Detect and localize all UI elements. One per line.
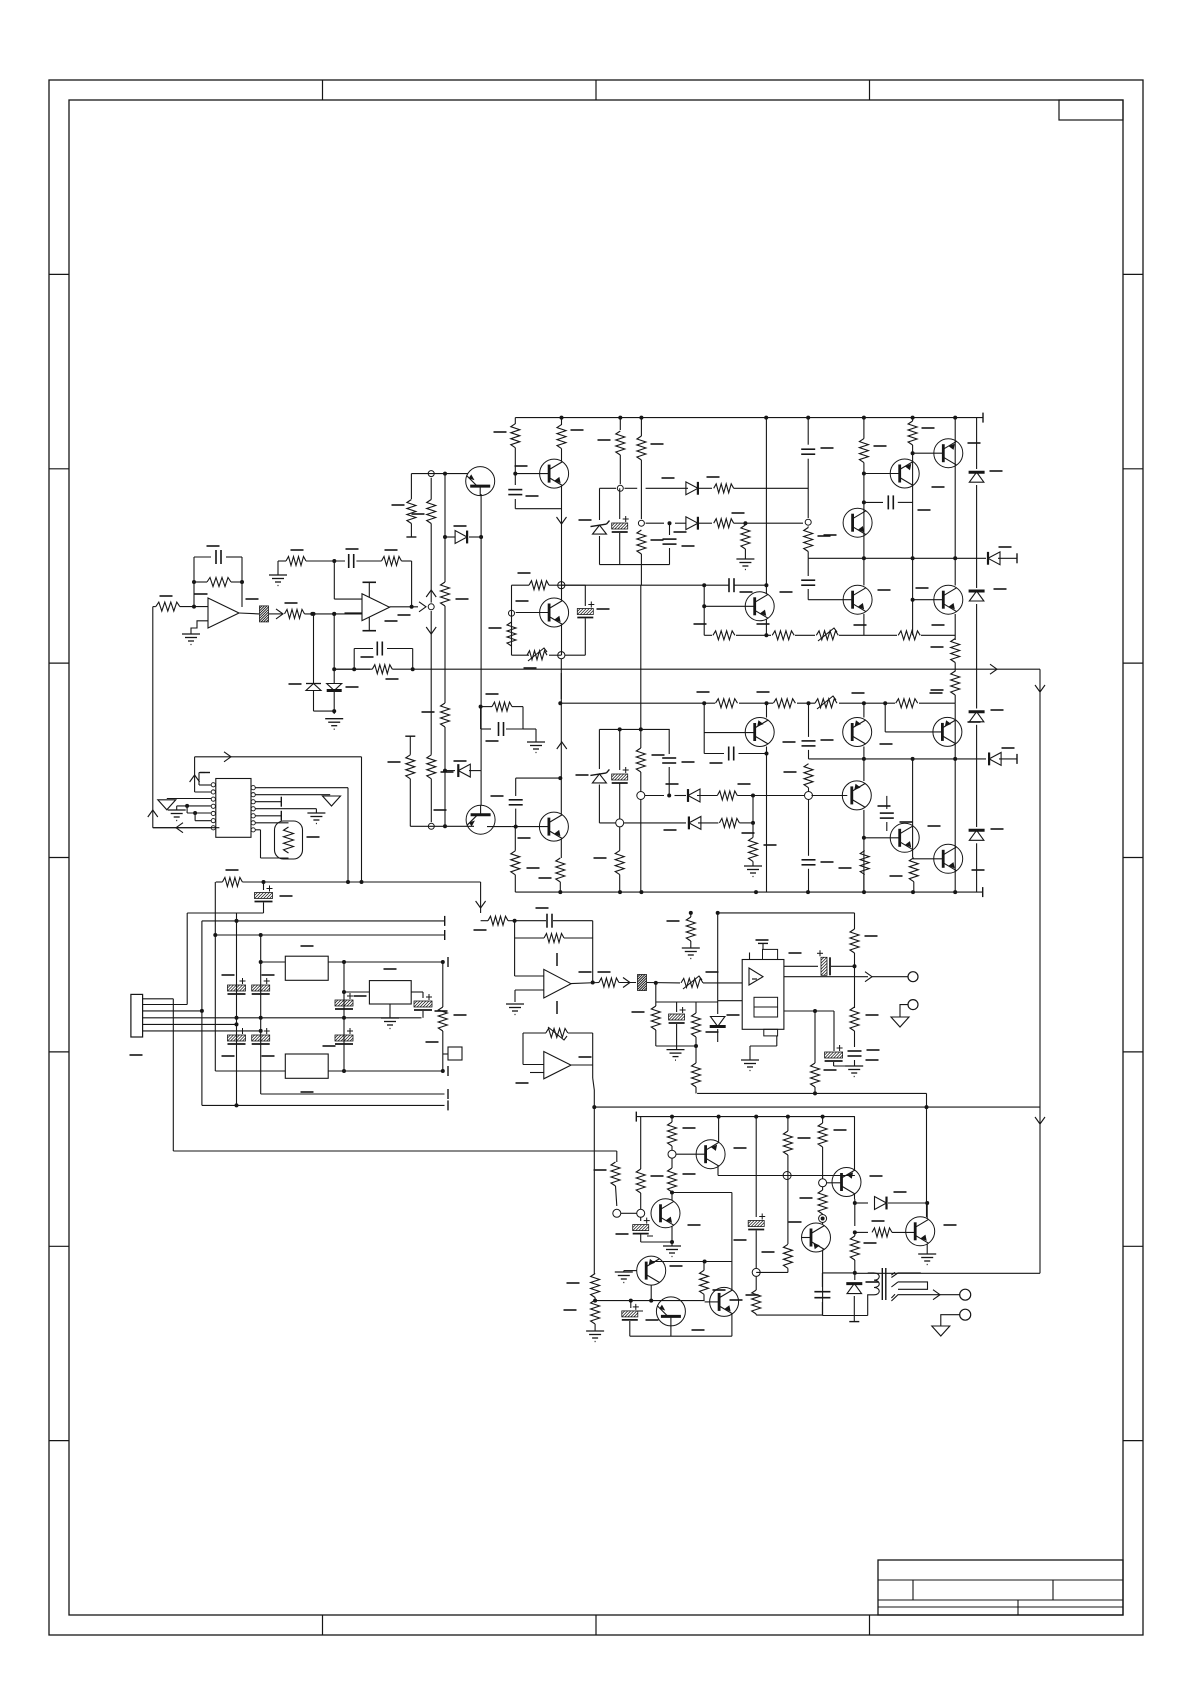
transistor Q8 xyxy=(890,459,919,488)
wire x787 low xyxy=(787,1268,789,1272)
wire J1 p2 xyxy=(143,1004,188,1006)
wire U4 out xyxy=(571,983,599,984)
capacitor C24 xyxy=(668,729,670,754)
ecap C51 xyxy=(630,1301,632,1308)
rect inside U5 xyxy=(754,997,778,1017)
wire x955 low xyxy=(954,695,956,703)
wire x511 vert xyxy=(511,585,513,655)
diode D13 xyxy=(686,517,698,530)
wire Q11 emit xyxy=(560,839,562,858)
relay core xyxy=(881,1268,883,1300)
wire rail y1093 xyxy=(697,1092,926,1094)
capacitor C18 xyxy=(801,579,815,581)
right margin tick 6 xyxy=(1123,1245,1143,1247)
wire x431 node to res xyxy=(430,478,432,500)
op-amp U2 xyxy=(362,594,390,621)
ferrite bead FB1 xyxy=(260,606,269,622)
wire VR3 gnd xyxy=(389,1004,391,1018)
capacitor C53b xyxy=(814,1291,830,1293)
wire D12 right xyxy=(698,487,712,489)
wire y1315 mid xyxy=(756,1314,822,1316)
wire x481 emitter chain xyxy=(480,494,482,537)
wire x620 top xyxy=(619,418,621,430)
wire x822 mid4 xyxy=(822,1223,824,1224)
wire pin R6 xyxy=(255,822,288,824)
wire rail558 term xyxy=(998,557,1017,559)
wire x236 xyxy=(236,913,238,1105)
wire x201 xyxy=(201,921,203,1106)
arrow signal right 1 xyxy=(276,609,283,619)
junction y1116 xyxy=(670,1115,674,1119)
transistor Q16 xyxy=(934,844,963,873)
junction x696 xyxy=(694,1044,698,1048)
transistor Q12 xyxy=(745,718,774,747)
junction bottom rail xyxy=(639,890,643,894)
resistor R37 xyxy=(896,699,918,708)
left margin tick 1 xyxy=(49,273,69,275)
node x822 circle a xyxy=(819,1179,827,1187)
wire x808 mid xyxy=(807,459,809,518)
wire Q14 base xyxy=(884,703,886,732)
node Q17 base circle xyxy=(637,1209,645,1217)
junction top rail xyxy=(639,416,643,420)
wire x913 a xyxy=(912,418,914,421)
wire Q11 bot xyxy=(559,882,561,892)
op-amp U4 xyxy=(544,969,571,998)
zener DZ4 xyxy=(590,773,606,776)
capacitor C22 xyxy=(509,799,523,801)
ground D2 xyxy=(325,718,343,720)
ground U5 xyxy=(741,1059,759,1061)
IC pin left 6 xyxy=(211,819,215,823)
wire x641 lower xyxy=(640,800,642,893)
IC pin right 3 xyxy=(251,800,255,804)
resistor R13 xyxy=(427,500,436,524)
wire Q21 col xyxy=(731,1262,733,1291)
resistor R16 xyxy=(529,581,549,590)
open terminal OT2 xyxy=(908,1000,918,1010)
transistor Q17 xyxy=(651,1199,680,1228)
wire y1175 xyxy=(718,1175,855,1177)
wire sense vertical xyxy=(152,607,154,828)
arrow x480 down xyxy=(476,901,486,908)
ecap C50 xyxy=(640,1218,642,1222)
resistor R25 xyxy=(804,528,813,552)
resistor R4 xyxy=(286,557,306,566)
wire Q4 emit xyxy=(561,625,563,655)
resistor R15 xyxy=(441,703,450,727)
resistor R70 xyxy=(591,1274,600,1298)
wire relay bottom rail xyxy=(822,1315,867,1317)
node y585 circle xyxy=(558,582,565,589)
wire x561 lower xyxy=(560,659,562,699)
wire x704 y585-635 xyxy=(703,585,705,635)
wire bias box top xyxy=(600,487,617,489)
resistor R62 xyxy=(850,1007,859,1031)
wire rail y1116 xyxy=(636,1116,855,1118)
ecap C36 xyxy=(335,1035,353,1041)
wire x913 bot xyxy=(913,882,915,892)
junction top rail xyxy=(764,416,768,420)
junction x672 y1192 xyxy=(670,1191,674,1195)
resistor R42 xyxy=(640,585,642,748)
diode D17 xyxy=(989,752,1001,765)
junction y962 xyxy=(259,960,263,964)
arrow relay out xyxy=(933,1290,940,1300)
wire Q18 base xyxy=(676,1153,705,1155)
terminal bottom rail xyxy=(982,887,984,897)
right margin tick 7 xyxy=(1123,1440,1143,1442)
relay contact 2 xyxy=(891,1295,931,1301)
power flag F1 xyxy=(158,800,176,810)
zener DZ1 xyxy=(599,488,601,520)
wire U5 out xyxy=(784,976,868,978)
wire Q24 emit xyxy=(926,1244,928,1254)
resistor R40 xyxy=(427,755,436,779)
wire Q10 base wire xyxy=(913,452,943,454)
zener DZ3 xyxy=(969,590,985,593)
wire x561 70x xyxy=(560,703,562,795)
wire U6 fb left xyxy=(522,1033,524,1065)
wire fb tap to RC xyxy=(334,668,370,670)
junction x445 y770 xyxy=(443,769,447,773)
resistor R75 xyxy=(668,1168,677,1192)
label U1 out xyxy=(246,598,259,600)
resistor R47 xyxy=(909,858,918,882)
wire net y561 c xyxy=(356,560,381,562)
junction y795 x669 xyxy=(667,794,671,798)
wire y756 down xyxy=(361,757,363,882)
trim resistor R36 xyxy=(815,699,837,708)
wire x431 mid2 xyxy=(430,611,432,755)
wire Q3 bottom stub xyxy=(480,771,482,806)
wire x410 low xyxy=(409,779,411,827)
wire R54 arrow xyxy=(619,982,636,984)
wire lrc right xyxy=(522,707,524,729)
wire pin L6 xyxy=(195,820,211,822)
transistor Q6 xyxy=(843,585,872,614)
resistor R54 xyxy=(599,978,619,987)
transistor Q3 big xyxy=(466,805,495,834)
wire U2 inv xyxy=(345,612,363,614)
wire pin R4 xyxy=(255,808,316,810)
top margin tick 2 xyxy=(595,80,597,100)
node x854 y1232 xyxy=(853,1230,857,1234)
IC box U5 xyxy=(742,960,784,1030)
junction y826 x515 xyxy=(514,825,518,829)
resistor R34 xyxy=(716,699,738,708)
transistor Q13 xyxy=(843,718,872,747)
title block divider b xyxy=(1052,1580,1054,1600)
junction x854 y966 xyxy=(853,964,857,968)
wire y1336 xyxy=(630,1335,732,1337)
relay contact loop xyxy=(898,1282,928,1289)
wire x976 low xyxy=(976,604,978,709)
wire x561 to Q1 xyxy=(561,449,563,461)
wire x445 low xyxy=(444,727,446,826)
ground net561 xyxy=(277,561,279,575)
transistor Q18 xyxy=(696,1140,725,1169)
resistor R23 xyxy=(714,484,734,493)
wire node A down xyxy=(313,614,315,683)
title block divider c xyxy=(1017,1600,1019,1615)
resistor R21 xyxy=(637,436,646,460)
lamp TH1 xyxy=(275,821,303,859)
wire RC box left xyxy=(353,649,355,670)
node Q18 base circle xyxy=(668,1150,676,1158)
transistor Q13b xyxy=(842,781,871,810)
U5 top pin line xyxy=(749,953,751,960)
capacitor C20 xyxy=(728,747,730,761)
wire OT4 hook xyxy=(941,1315,960,1326)
capacitor C27 xyxy=(481,728,491,730)
resistor R58 xyxy=(811,1063,820,1087)
wire x808 low xyxy=(807,526,809,527)
resistor R27 xyxy=(908,421,917,445)
diode D21 xyxy=(855,1202,868,1204)
wire pin L7 xyxy=(153,827,211,829)
wire feedback mid xyxy=(194,581,207,583)
arrow sense left xyxy=(176,823,183,833)
IC box U3 xyxy=(216,779,251,838)
node y826 circle xyxy=(428,823,434,829)
regulator box VR2 xyxy=(285,1054,328,1078)
junction top rail xyxy=(862,416,866,420)
wire y523 to node xyxy=(734,522,803,524)
resistor R74 xyxy=(668,1122,677,1146)
capacitor C21 xyxy=(808,703,810,737)
wire Q8 base wire xyxy=(864,473,899,475)
junction y935 a xyxy=(213,933,217,937)
wire Q23 emit xyxy=(854,1194,856,1200)
resistor R33 xyxy=(951,671,960,695)
resistor R3 xyxy=(285,609,305,618)
wire x672 mid2 xyxy=(671,1158,673,1168)
regulator box VR1 xyxy=(285,956,328,980)
diode D15 xyxy=(688,789,700,802)
junction x864 y502 xyxy=(862,500,866,504)
zener DZ2 xyxy=(969,471,985,474)
node x822 circle b xyxy=(819,1215,827,1223)
transistor Q14 xyxy=(933,717,962,746)
wire node B down xyxy=(333,614,335,684)
ecap C31 xyxy=(228,985,246,991)
arrow x561 down xyxy=(557,517,567,524)
resistor R35 xyxy=(773,699,795,708)
arrow x431 down xyxy=(426,627,436,634)
capacitor C26b xyxy=(808,800,810,856)
label J1 xyxy=(130,1054,143,1056)
wire U6 out xyxy=(571,1064,593,1066)
junction bottom rail xyxy=(618,890,622,894)
regulator box VR3 xyxy=(369,981,411,1004)
wire rail y760 xyxy=(809,758,987,760)
terminal pin L1 xyxy=(200,772,210,774)
wire U6 inv xyxy=(523,1064,544,1066)
wire pin R7 xyxy=(255,829,260,831)
transistor Q23 xyxy=(832,1168,861,1197)
left margin tick 2 xyxy=(49,468,69,470)
resistor R82 xyxy=(850,1236,859,1260)
wire x913 lower xyxy=(912,760,914,858)
resistor R60 xyxy=(692,1063,701,1087)
node B xyxy=(332,612,336,616)
resistor R85 xyxy=(804,764,813,788)
wire x595 mid xyxy=(594,1298,596,1301)
wire J1 p3 xyxy=(143,1010,202,1012)
power flag F2 xyxy=(323,796,341,806)
wire Q21 emit xyxy=(731,1314,733,1336)
resistor R29 xyxy=(772,631,794,640)
resistor R10 xyxy=(511,424,520,448)
resistor R2 xyxy=(207,578,231,587)
wire net y561 d xyxy=(402,560,412,562)
wire y822 right b xyxy=(739,822,753,824)
resistor R17 xyxy=(507,622,516,646)
wire x854 low2 xyxy=(854,1031,856,1047)
resistor R50 xyxy=(222,878,242,887)
arrow x194 up xyxy=(190,775,200,782)
diode D14 xyxy=(988,552,1000,565)
left margin tick 3 xyxy=(49,662,69,664)
wire pin R1 xyxy=(255,787,348,789)
resistor R78 xyxy=(783,1131,792,1155)
wire bottom rail y1071 xyxy=(215,1070,285,1072)
wire sense to IC xyxy=(153,827,220,829)
wire x913 b xyxy=(912,445,914,558)
transistor Q1 xyxy=(540,459,569,488)
wire Q18 col xyxy=(718,1117,720,1143)
wire x691 stub xyxy=(690,913,692,917)
junction rail1018 xyxy=(235,1016,239,1020)
power flag F5 xyxy=(932,1326,950,1336)
ecap C14 xyxy=(619,488,621,519)
wire pin L3 xyxy=(167,798,211,800)
wire row635 xyxy=(704,634,712,636)
transistor Q20 xyxy=(656,1297,685,1326)
IC pin right 7 xyxy=(251,828,255,832)
wire x215 xyxy=(214,882,216,1071)
wire R3 to node xyxy=(305,613,362,615)
diode D12 xyxy=(686,482,698,495)
wire x815 down xyxy=(814,1011,816,1063)
wire Q21 base xyxy=(705,1301,720,1303)
wire x756 top xyxy=(755,1117,757,1217)
wire x515 top xyxy=(514,418,516,424)
junction bottom rail xyxy=(862,890,866,894)
wire x260 xyxy=(260,935,262,1094)
wire rail y1107 xyxy=(594,1106,1040,1108)
top margin tick 1 xyxy=(322,80,324,100)
wire fb2 mid xyxy=(515,937,544,939)
ecap C41 xyxy=(784,965,818,967)
wire x787 mid xyxy=(787,1155,789,1244)
ground pin R4 xyxy=(307,812,325,814)
wire y473 base line xyxy=(411,473,445,475)
resistor R73 xyxy=(636,1169,645,1193)
wire Q7 base xyxy=(913,599,943,601)
wire diode row1 xyxy=(445,536,455,538)
wire x854 mid xyxy=(854,953,856,1004)
junction top rail xyxy=(560,416,564,420)
transistor Q10 xyxy=(934,439,963,468)
wire x515 bot xyxy=(514,827,516,851)
wire pin L2 xyxy=(195,791,212,793)
wire x704 low xyxy=(703,1294,705,1300)
IC pin left 3 xyxy=(211,797,215,801)
wire x187 xyxy=(186,913,188,1005)
node lbox circle xyxy=(637,792,645,800)
top margin tick 3 xyxy=(869,80,871,100)
wire lrc left xyxy=(480,707,482,729)
resistor R79 xyxy=(783,1244,792,1268)
junction y882 c xyxy=(360,880,364,884)
junction y1093 xyxy=(813,1091,817,1095)
terminal x410 t xyxy=(405,735,415,737)
wire x344 xyxy=(343,962,345,1071)
resistor R39 xyxy=(406,755,415,779)
wire x808 to base xyxy=(807,589,809,600)
title block outline xyxy=(878,1560,1123,1615)
U5 bottom bump xyxy=(764,1029,778,1036)
wire x731 down xyxy=(731,1193,733,1262)
IC pin left 7 xyxy=(211,826,215,830)
wire pin R3 xyxy=(255,801,281,803)
wire Q12 base xyxy=(704,732,755,734)
wire Q4 col xyxy=(561,585,563,600)
fuse box F3 xyxy=(448,1047,462,1060)
wire x822 mid xyxy=(822,1147,824,1179)
wire U2 fb down xyxy=(333,561,335,599)
junction x481 y537 xyxy=(479,535,483,539)
right margin tick 5 xyxy=(1123,1051,1143,1053)
arrow y756 right xyxy=(224,752,231,762)
wire J1 p4 rail1018 xyxy=(143,1017,422,1019)
resistor R5 xyxy=(382,557,402,566)
wire x641 low xyxy=(640,554,642,585)
resistor R44 xyxy=(719,818,739,827)
resistor R43 xyxy=(717,791,737,800)
left margin tick 6 xyxy=(49,1245,69,1247)
junction rail558 xyxy=(862,556,866,560)
ecap C43 xyxy=(676,1002,678,1012)
junction rail760 xyxy=(911,757,915,761)
ground R56 xyxy=(682,947,700,949)
wire J1 p6 xyxy=(143,1030,261,1032)
wire rail760 term xyxy=(999,758,1017,760)
wire x717 down xyxy=(717,913,719,1001)
node y655 circle xyxy=(558,652,565,659)
wire J1 p1 xyxy=(143,998,174,1000)
ecap C52 xyxy=(748,1221,764,1227)
wire relay out xyxy=(931,1294,960,1296)
resistor R48 xyxy=(860,851,869,875)
wire Q1 emitter xyxy=(561,486,563,585)
wire x431 mid xyxy=(430,524,432,603)
wire trim row xyxy=(512,654,530,656)
wire x655 down xyxy=(655,983,657,1006)
wire x756 bot xyxy=(755,1314,757,1315)
wire y1261 xyxy=(651,1261,732,1263)
wire fb2 right xyxy=(592,921,594,983)
diode D2 xyxy=(327,684,342,691)
wire U5 left in2 xyxy=(718,1000,743,1002)
op-amp U1 xyxy=(208,598,239,628)
wire rail669 left seg xyxy=(334,668,372,670)
wire x672 low xyxy=(671,1226,673,1242)
resistor R59 xyxy=(695,1002,697,1013)
node bias circle xyxy=(617,485,623,491)
